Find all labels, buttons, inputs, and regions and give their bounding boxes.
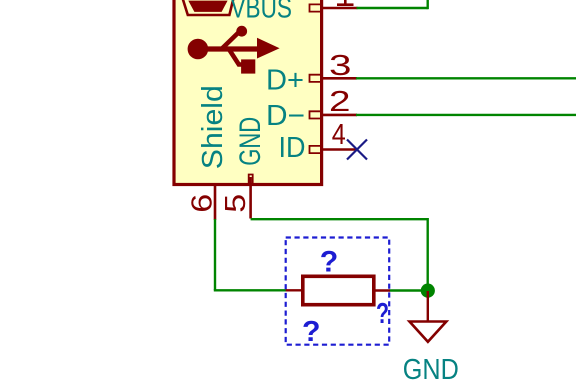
svg-text:GND: GND	[403, 354, 459, 384]
USB trident bottom branch	[229, 49, 245, 65]
USB shell trapezoid outline	[182, 0, 234, 15]
resistor R? body	[303, 276, 374, 304]
svg-text:4: 4	[332, 119, 346, 151]
pin 2 pad bracket	[310, 111, 322, 118]
junction dot	[421, 284, 435, 298]
USB trident top branch	[222, 32, 240, 49]
unknown symbol dashed box	[286, 238, 390, 345]
pin 3 pad bracket	[310, 75, 322, 82]
wire VBUS vertical up	[427, 0, 429, 9]
svg-text:6: 6	[186, 194, 218, 213]
wire GND vertical down	[427, 218, 429, 291]
pin 2 line	[321, 114, 357, 117]
wire Shield horizontal to resistor	[214, 289, 287, 291]
pin 4 line	[321, 148, 357, 151]
svg-text:?: ?	[320, 245, 339, 278]
svg-text:2: 2	[329, 86, 351, 118]
pin 6 line	[214, 185, 217, 220]
svg-text:D−: D−	[266, 100, 305, 132]
pin 5 line	[249, 177, 252, 219]
svg-text:?: ?	[376, 298, 389, 330]
USB trident icon circle	[188, 39, 209, 60]
USB trident main stem	[202, 46, 258, 51]
wire Shield vertical	[214, 219, 216, 290]
no-connect X on pin 4	[347, 140, 367, 160]
USB shell trapezoid fill	[188, 1, 227, 12]
svg-text:?: ?	[302, 316, 321, 348]
pin 3 line	[321, 77, 357, 80]
USB trident top branch circle	[236, 26, 247, 37]
USB trident bottom branch square	[241, 59, 255, 73]
svg-text:GND: GND	[234, 117, 267, 166]
wire GND horizontal	[251, 218, 428, 220]
wire resistor to junction	[390, 289, 428, 291]
svg-text:ID: ID	[279, 132, 306, 164]
power symbol GND triangle	[410, 322, 447, 342]
svg-text:5: 5	[220, 194, 252, 213]
pin 5 pad bracket	[249, 175, 253, 184]
resistor R? left lead	[286, 289, 303, 291]
power symbol GND stem	[427, 291, 429, 322]
wire VBUS horizontal	[357, 7, 428, 9]
svg-text:VBUS: VBUS	[231, 0, 293, 25]
pin 4 pad bracket	[310, 146, 322, 153]
pin 1 line	[321, 7, 358, 10]
pin 1 pad bracket	[310, 4, 322, 11]
connector J? body	[174, 0, 322, 185]
USB trident arrow head	[257, 38, 280, 59]
pin 1 number (clipped at top)	[337, 0, 354, 6]
wire D-	[356, 114, 576, 116]
svg-text:D+: D+	[266, 65, 304, 97]
resistor R? right lead	[374, 289, 390, 291]
svg-text:Shield: Shield	[197, 85, 229, 169]
wire D+	[356, 77, 576, 79]
